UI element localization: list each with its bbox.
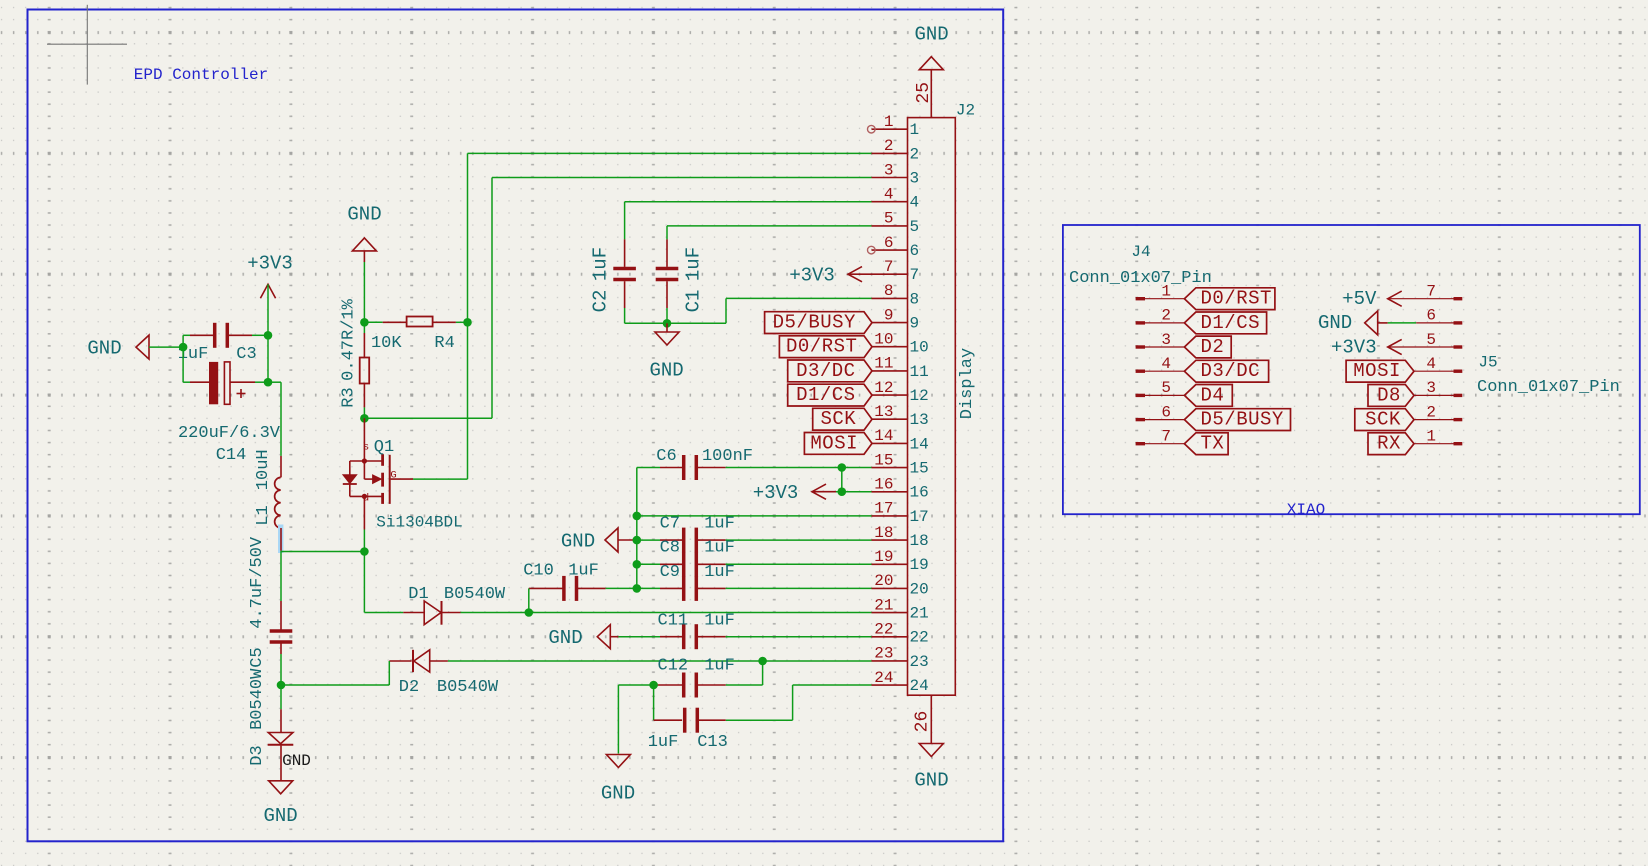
svg-text:C3: C3 xyxy=(236,345,256,364)
J2 pin 10 stub xyxy=(872,346,908,348)
J2 pin 4 stub xyxy=(872,201,908,203)
svg-text:C7: C7 xyxy=(660,515,680,534)
svg-text:D3: D3 xyxy=(248,745,267,765)
svg-text:SCK: SCK xyxy=(820,408,856,430)
svg-text:8: 8 xyxy=(884,282,894,300)
ground symbol GND (left of C3) xyxy=(136,335,149,359)
svg-text:D8: D8 xyxy=(1377,384,1401,406)
svg-text:C8: C8 xyxy=(660,539,680,558)
junction C14/+3V3 node xyxy=(264,378,273,387)
J2 pin 1 stub xyxy=(872,128,908,130)
svg-text:17: 17 xyxy=(910,508,929,526)
svg-text:6: 6 xyxy=(884,234,894,252)
svg-text:1uF: 1uF xyxy=(568,562,599,581)
svg-text:L1: L1 xyxy=(254,505,273,525)
svg-text:d: d xyxy=(363,493,369,505)
svg-text:Conn_01x07_Pin: Conn_01x07_Pin xyxy=(1069,269,1212,288)
J5 pin 1 stub xyxy=(1414,443,1454,445)
global label D2 at J4 pin 3 xyxy=(1184,336,1231,358)
svg-text:14: 14 xyxy=(910,435,929,453)
svg-text:J2: J2 xyxy=(956,102,975,120)
junction C5/D2/D3 xyxy=(277,681,286,690)
capacitor C2 1uF xyxy=(624,239,626,267)
svg-text:+3V3: +3V3 xyxy=(247,253,293,275)
svg-text:11: 11 xyxy=(910,363,929,381)
J2 pin 23 stub xyxy=(872,660,908,662)
svg-text:21: 21 xyxy=(874,596,893,614)
highlighted net segment below L1 xyxy=(278,525,283,554)
svg-text:2: 2 xyxy=(1161,307,1171,325)
svg-text:D1/CS: D1/CS xyxy=(1201,312,1261,334)
global label SCK at J2 pin 13 xyxy=(813,408,872,430)
svg-text:1uF: 1uF xyxy=(704,657,735,676)
junction bus row 20 xyxy=(633,584,642,593)
svg-text:SCK: SCK xyxy=(1365,409,1401,431)
connector J2 body xyxy=(908,118,956,696)
svg-text:D0/RST: D0/RST xyxy=(786,336,857,358)
svg-text:C6: C6 xyxy=(656,447,676,466)
svg-text:GND: GND xyxy=(347,204,381,226)
svg-text:Q1: Q1 xyxy=(374,438,394,457)
svg-text:0.47R/1%: 0.47R/1% xyxy=(340,298,359,380)
wire C14 right to node xyxy=(255,381,268,383)
global label TX at J4 pin 7 xyxy=(1184,433,1228,455)
capacitor C10 1uF xyxy=(529,587,564,589)
global label D4 at J4 pin 5 xyxy=(1184,385,1232,407)
global label D3/DC at J4 pin 4 xyxy=(1184,360,1268,382)
transistor Q1 Si1304BDL xyxy=(363,418,365,461)
svg-text:C2: C2 xyxy=(590,290,612,313)
svg-text:1uF: 1uF xyxy=(704,612,735,631)
wire Q1 drain to switch node xyxy=(363,530,365,552)
svg-text:D5/BUSY: D5/BUSY xyxy=(1201,409,1284,431)
svg-text:14: 14 xyxy=(874,427,893,445)
ground symbol GND (below D3) xyxy=(269,781,293,794)
svg-text:GND: GND xyxy=(561,531,595,553)
svg-text:7: 7 xyxy=(1426,283,1436,301)
J2 pin 6 no-connect circle xyxy=(868,246,876,254)
J2 pin 15 stub xyxy=(872,467,908,469)
svg-text:5: 5 xyxy=(1426,331,1436,349)
J2 pin 14 stub xyxy=(872,442,908,444)
global label D5/BUSY at J2 pin 9 xyxy=(765,312,872,334)
svg-text:D1: D1 xyxy=(408,585,428,604)
J2 pin 19 stub xyxy=(872,563,908,565)
svg-text:C5: C5 xyxy=(248,647,267,667)
svg-text:4: 4 xyxy=(910,194,920,212)
svg-text:19: 19 xyxy=(874,548,893,566)
ground symbol GND (C12/C13) xyxy=(606,755,630,768)
svg-text:Display: Display xyxy=(958,348,977,419)
ground symbol GND (C11) xyxy=(597,625,610,649)
svg-text:J5: J5 xyxy=(1478,354,1497,372)
svg-text:C11: C11 xyxy=(657,612,688,631)
svg-text:16: 16 xyxy=(874,476,893,494)
J4 pin 6 stub xyxy=(1136,418,1145,421)
wire C3 right to +3V3 rail xyxy=(252,334,268,336)
J5 pin 2 stub xyxy=(1414,419,1454,421)
svg-text:3: 3 xyxy=(910,169,920,187)
wire D2 anode to pin23 xyxy=(448,660,872,662)
junction D1/C10 xyxy=(525,608,534,617)
J4 pin 3 stub xyxy=(1136,345,1145,348)
svg-text:B0540W: B0540W xyxy=(444,585,506,604)
J2 pin 9 stub xyxy=(872,322,908,324)
svg-text:1uF: 1uF xyxy=(704,539,735,558)
junction bus row 18 xyxy=(633,536,642,545)
capacitor C6 100nF xyxy=(637,467,660,469)
svg-text:7: 7 xyxy=(1161,428,1171,446)
svg-text:4: 4 xyxy=(884,186,894,204)
svg-text:GND: GND xyxy=(601,783,635,805)
svg-text:220uF/6.3V: 220uF/6.3V xyxy=(178,424,281,443)
svg-text:B0540W: B0540W xyxy=(437,678,499,697)
svg-text:1: 1 xyxy=(910,121,920,139)
global label RX at J5 pin 1 xyxy=(1368,433,1414,455)
svg-text:2: 2 xyxy=(910,145,920,163)
svg-text:15: 15 xyxy=(874,451,893,469)
wire bypass bus vertical xyxy=(636,468,638,589)
svg-text:3: 3 xyxy=(884,161,894,179)
power symbol +5V at J5 pin 7 xyxy=(1388,291,1402,306)
svg-text:9: 9 xyxy=(884,306,894,324)
svg-text:1uF: 1uF xyxy=(648,733,679,752)
svg-text:10: 10 xyxy=(910,339,929,357)
junction pin23/C12 branch xyxy=(758,657,767,666)
svg-text:22: 22 xyxy=(910,629,929,647)
J2 pin 18 stub xyxy=(872,539,908,541)
svg-text:s: s xyxy=(363,442,369,454)
capacitor C8 1uF xyxy=(637,563,660,565)
hierarchical sheet XIAO xyxy=(1063,225,1640,514)
svg-text:22: 22 xyxy=(874,621,893,639)
wire R3 bottom to pin3 riser xyxy=(364,417,492,419)
svg-text:23: 23 xyxy=(874,645,893,663)
svg-text:6: 6 xyxy=(1161,403,1171,421)
svg-text:1: 1 xyxy=(884,113,894,131)
wire pin5 to C1 xyxy=(667,225,872,227)
wire L1 bottom to switch node xyxy=(280,550,282,553)
svg-text:4.7uF/50V: 4.7uF/50V xyxy=(248,536,267,629)
J2 pin 22 stub xyxy=(872,636,908,638)
J2 pin 12 stub xyxy=(872,394,908,396)
svg-text:17: 17 xyxy=(874,500,893,518)
junction R3 top / R4 left xyxy=(360,318,369,327)
J2 pin 17 stub xyxy=(872,515,908,517)
svg-text:MOSI: MOSI xyxy=(810,432,858,454)
junction C12 left / C13 / GND xyxy=(649,681,658,690)
J2 pin 24 stub xyxy=(872,684,908,686)
wire D2 cathode down to C5 node xyxy=(388,661,390,685)
J2 pin 2 stub xyxy=(872,152,908,154)
svg-text:9: 9 xyxy=(910,315,920,333)
J2 pin 6 stub xyxy=(872,249,908,251)
svg-text:24: 24 xyxy=(874,669,893,687)
svg-text:26: 26 xyxy=(913,711,933,733)
svg-text:2: 2 xyxy=(1426,403,1436,421)
junction at GND branch xyxy=(179,343,188,352)
inductor L1 10uH xyxy=(275,477,281,528)
J4 pin 7 stub xyxy=(1136,442,1145,445)
svg-text:25: 25 xyxy=(914,82,934,104)
svg-text:GND: GND xyxy=(548,627,582,649)
power symbol +3V3 at pin16 xyxy=(841,468,843,492)
capacitor C3 xyxy=(213,323,217,348)
svg-text:12: 12 xyxy=(910,387,929,405)
wire node to L1 xyxy=(268,381,281,383)
sheet border frame xyxy=(28,10,1004,842)
svg-text:C1: C1 xyxy=(683,290,705,313)
svg-text:GND: GND xyxy=(649,360,683,382)
svg-text:1uF: 1uF xyxy=(704,563,735,582)
capacitor C9 1uF xyxy=(637,587,660,589)
svg-text:+3V3: +3V3 xyxy=(789,265,835,287)
J4 pin 4 stub xyxy=(1136,370,1145,373)
svg-text:D1/CS: D1/CS xyxy=(796,384,856,406)
wire C2/C1 bottoms to pin8 xyxy=(624,308,626,323)
svg-text:1uF: 1uF xyxy=(704,515,735,534)
wire C13 right up to pin24 xyxy=(792,685,794,720)
svg-text:D5/BUSY: D5/BUSY xyxy=(773,312,856,334)
svg-text:5: 5 xyxy=(1161,379,1171,397)
svg-text:24: 24 xyxy=(910,677,929,695)
J2 pin 1 no-connect circle xyxy=(868,125,876,133)
global label D1/CS at J4 pin 2 xyxy=(1184,312,1266,334)
svg-text:13: 13 xyxy=(874,403,893,421)
svg-text:EPD Controller: EPD Controller xyxy=(134,66,268,84)
global label MOSI at J5 pin 4 xyxy=(1346,360,1414,382)
global label D8 at J5 pin 3 xyxy=(1368,385,1414,407)
J2 pin 13 stub xyxy=(872,418,908,420)
svg-text:11: 11 xyxy=(874,355,893,373)
svg-text:TX: TX xyxy=(1201,433,1225,455)
J2 pin 11 stub xyxy=(872,370,908,372)
junction R3 bottom / Q1 source xyxy=(360,414,369,423)
svg-text:G: G xyxy=(390,470,396,482)
svg-text:6: 6 xyxy=(910,242,920,260)
power symbol +3V3 (top left) xyxy=(260,284,275,298)
wire bus to pin17 xyxy=(637,515,872,517)
wire node to D3 xyxy=(280,685,282,709)
capacitor C1 1uF xyxy=(666,239,668,267)
junction bus row 17 xyxy=(633,512,642,521)
svg-text:3: 3 xyxy=(1161,331,1171,349)
J2 pin 25 stub to GND xyxy=(930,69,932,117)
svg-text:+5V: +5V xyxy=(1342,288,1377,310)
svg-text:2: 2 xyxy=(884,137,894,155)
diode D3 B0540W xyxy=(280,709,282,732)
J2 pin 21 stub xyxy=(872,612,908,614)
J4 pin 1 stub xyxy=(1136,297,1145,300)
svg-text:3: 3 xyxy=(1426,379,1436,397)
ground symbol GND (pin 25) xyxy=(919,57,943,70)
J4 pin 2 stub xyxy=(1136,321,1145,324)
svg-text:5: 5 xyxy=(884,210,894,228)
svg-text:Si1304BDL: Si1304BDL xyxy=(376,514,462,532)
svg-text:C9: C9 xyxy=(660,563,680,582)
svg-text:Conn_01x07_Pin: Conn_01x07_Pin xyxy=(1477,378,1620,397)
wire pin2 to R4/gate riser xyxy=(468,152,872,154)
global label D3/DC at J2 pin 11 xyxy=(788,360,872,382)
J2 pin 8 stub xyxy=(872,297,908,299)
ground symbol GND at J5 pin 6 xyxy=(1365,311,1378,335)
svg-text:7: 7 xyxy=(910,266,920,284)
junction switch node xyxy=(360,547,369,556)
capacitor C11 1uF xyxy=(618,636,660,638)
wire pin23 branch down to C12 xyxy=(762,661,764,685)
resistor R3 0.47R/1% xyxy=(363,322,365,333)
capacitor C14 (polarized 220uF/6.3V) xyxy=(209,362,218,404)
svg-text:10K: 10K xyxy=(371,334,402,353)
wire switch node down to D1 xyxy=(363,552,365,613)
power symbol +3V3 at J5 pin 5 xyxy=(1388,339,1402,354)
J2 pin 7 stub xyxy=(872,273,908,275)
wire Q1 gate to riser xyxy=(413,478,467,480)
svg-text:8: 8 xyxy=(910,290,920,308)
svg-text:D2: D2 xyxy=(1201,336,1225,358)
svg-text:18: 18 xyxy=(874,524,893,542)
svg-text:D2: D2 xyxy=(399,678,419,697)
svg-text:10: 10 xyxy=(874,331,893,349)
svg-text:D3/DC: D3/DC xyxy=(796,360,856,382)
svg-text:D0/RST: D0/RST xyxy=(1201,288,1272,310)
junction C1 bottom xyxy=(663,319,672,328)
global label D0/RST at J2 pin 10 xyxy=(779,336,872,358)
capacitor C5 4.7uF/50V xyxy=(280,601,282,630)
svg-text:RX: RX xyxy=(1377,433,1401,455)
svg-text:+3V3: +3V3 xyxy=(1331,336,1377,358)
wire at J5 pin 6 xyxy=(1388,322,1417,324)
svg-text:4: 4 xyxy=(1426,355,1436,373)
svg-text:21: 21 xyxy=(910,605,929,623)
svg-text:GND: GND xyxy=(87,338,121,360)
svg-text:12: 12 xyxy=(874,379,893,397)
svg-text:20: 20 xyxy=(910,580,929,598)
junction R4 right / pin2 wire / gate riser xyxy=(463,318,472,327)
J4 pin 5 stub xyxy=(1136,394,1145,397)
svg-text:GND: GND xyxy=(1318,312,1352,334)
svg-text:B0540W: B0540W xyxy=(248,668,267,730)
svg-text:4: 4 xyxy=(1161,355,1171,373)
svg-text:15: 15 xyxy=(910,460,929,478)
wire C5 bottom to D2/D3 node xyxy=(280,654,282,685)
J2 pin 20 stub xyxy=(872,587,908,589)
svg-text:D3/DC: D3/DC xyxy=(1201,360,1261,382)
svg-text:+3V3: +3V3 xyxy=(753,482,799,504)
global label SCK at J5 pin 2 xyxy=(1355,409,1414,431)
wire GND to C3/C14 node xyxy=(149,346,183,348)
svg-text:100nF: 100nF xyxy=(702,447,753,466)
svg-text:10uH: 10uH xyxy=(254,449,273,490)
svg-text:16: 16 xyxy=(910,484,929,502)
svg-text:GND: GND xyxy=(282,752,311,770)
svg-text:C14: C14 xyxy=(216,446,247,465)
svg-text:1uF: 1uF xyxy=(590,247,612,281)
svg-text:20: 20 xyxy=(874,572,893,590)
junction C3/+3V3 xyxy=(264,331,273,340)
wire pin3 to R3 bottom xyxy=(492,177,872,179)
svg-text:1uF: 1uF xyxy=(683,247,705,281)
svg-text:R3: R3 xyxy=(340,387,359,407)
wire C12 left to GND drop xyxy=(618,684,653,686)
J5 pin 4 stub xyxy=(1414,370,1454,372)
global label D1/CS at J2 pin 12 xyxy=(788,384,872,406)
svg-text:13: 13 xyxy=(910,411,929,429)
global label D5/BUSY at J4 pin 6 xyxy=(1184,409,1290,431)
svg-text:7: 7 xyxy=(884,258,894,276)
J2 pin 3 stub xyxy=(872,177,908,179)
svg-text:C13: C13 xyxy=(697,733,728,752)
svg-text:1: 1 xyxy=(1426,428,1436,446)
svg-text:C10: C10 xyxy=(523,562,554,581)
wire GND to R3 top xyxy=(363,262,365,322)
svg-text:GND: GND xyxy=(914,23,948,45)
svg-text:1: 1 xyxy=(1161,283,1171,301)
wire C10 right to bypass bus xyxy=(606,587,637,589)
capacitor C7 1uF xyxy=(637,539,660,541)
svg-text:XIAO: XIAO xyxy=(1287,501,1325,519)
svg-text:18: 18 xyxy=(910,532,929,550)
J5 pin 3 stub xyxy=(1414,394,1454,396)
svg-text:6: 6 xyxy=(1426,307,1436,325)
svg-text:R4: R4 xyxy=(434,334,454,353)
global label MOSI at J2 pin 14 xyxy=(804,433,872,455)
svg-text:J4: J4 xyxy=(1131,243,1150,261)
J2 pin 5 stub xyxy=(872,225,908,227)
capacitor C13 1uF xyxy=(653,685,655,720)
J2 pin 26 stub to GND xyxy=(930,695,932,743)
diode D2 B0540W xyxy=(389,660,411,662)
resistor R4 10K xyxy=(364,321,382,323)
power symbol +3V3 at pin7 xyxy=(848,267,862,282)
J2 pin 16 stub xyxy=(872,491,908,493)
capacitor C12 1uF xyxy=(654,684,683,686)
ground symbol GND (bypass bus) xyxy=(605,528,618,552)
svg-text:5: 5 xyxy=(910,218,920,236)
svg-text:GND: GND xyxy=(914,770,948,792)
wire D1 cathode to pin21 xyxy=(461,612,872,614)
ground symbol GND (below C1) xyxy=(666,323,668,332)
wire pin4 to C2 xyxy=(625,201,872,203)
global label D0/RST at J4 pin 1 xyxy=(1184,288,1275,310)
ground symbol GND (pin 26) xyxy=(919,744,943,757)
svg-text:23: 23 xyxy=(910,653,929,671)
svg-text:GND: GND xyxy=(263,805,297,827)
junction pin15/+3V3 branch xyxy=(838,463,847,472)
svg-text:C12: C12 xyxy=(657,657,688,676)
svg-text:MOSI: MOSI xyxy=(1353,360,1401,382)
junction bus row 19 xyxy=(633,560,642,569)
origin crosshair marker xyxy=(86,5,88,85)
diode D1 B0540W xyxy=(403,612,424,614)
svg-text:D4: D4 xyxy=(1201,384,1225,406)
svg-text:19: 19 xyxy=(910,556,929,574)
wire C10 left down to D1 net xyxy=(528,588,530,612)
